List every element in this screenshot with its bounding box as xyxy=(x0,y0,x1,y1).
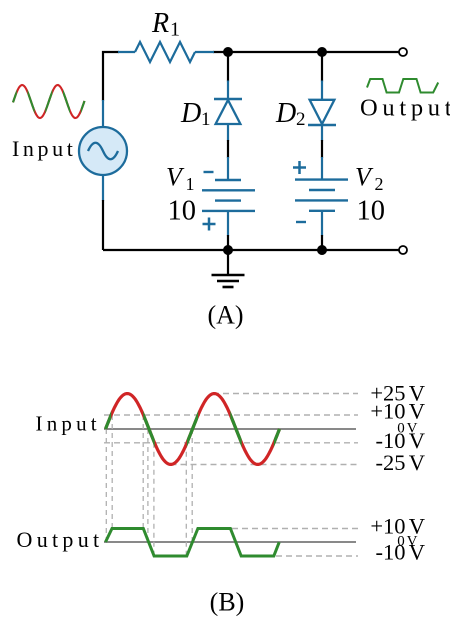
wire V1 to bottom rail xyxy=(227,211,229,236)
svg-text:(B): (B) xyxy=(210,588,245,617)
svg-text:V: V xyxy=(355,163,374,192)
svg-text:Input: Input xyxy=(36,412,101,436)
svg-text:2: 2 xyxy=(296,109,306,130)
wire node1 to D1 xyxy=(227,52,229,82)
diode D2 (cathode down) xyxy=(308,100,336,125)
output waveform (clipped trapezoid) xyxy=(106,529,280,557)
label R1 xyxy=(151,8,180,41)
guide +10V dashed xyxy=(104,414,358,416)
guide +25V dashed xyxy=(213,393,358,395)
svg-text:D: D xyxy=(180,98,201,129)
guide vertical dashed x=106.3 xyxy=(105,429,107,542)
svg-text:10: 10 xyxy=(168,196,197,227)
wire bottom rail xyxy=(103,249,399,251)
node junction top D1 xyxy=(223,47,233,57)
battery V1 xyxy=(202,180,255,211)
guide -10V dashed xyxy=(104,442,358,444)
guide vertical dashed x=186.3 xyxy=(185,443,187,556)
node junction top D2 xyxy=(317,47,327,57)
battery V2 xyxy=(295,180,348,211)
guide vertical dashed x=147.9 xyxy=(147,429,149,542)
label D2 xyxy=(275,98,306,130)
diode D1 (cathode up) xyxy=(214,99,242,124)
wire source bottom xyxy=(102,175,104,202)
node junction bottom V2 xyxy=(317,245,327,255)
V1 minus sign xyxy=(204,171,214,173)
wire top-left corner xyxy=(103,52,119,101)
label V1 xyxy=(166,163,195,195)
guide vertical dashed x=112.2 xyxy=(111,415,113,529)
wire D2 to V2 xyxy=(321,125,323,141)
svg-text:1: 1 xyxy=(170,19,180,41)
wire node2 to D2 xyxy=(321,52,323,82)
guide -25V dashed xyxy=(171,464,359,466)
svg-text:V: V xyxy=(166,163,185,192)
guide vertical dashed x=192.2 xyxy=(191,429,193,542)
svg-text:Output: Output xyxy=(360,95,450,122)
V2 minus sign xyxy=(296,221,306,223)
label V2 xyxy=(355,163,384,195)
svg-text:D: D xyxy=(275,98,296,129)
wire D1 to V1 xyxy=(227,124,229,141)
wire source top xyxy=(102,100,104,128)
guide output -10V dashed xyxy=(276,555,358,557)
svg-text:(A): (A) xyxy=(207,301,243,330)
svg-text:1: 1 xyxy=(186,174,195,194)
ground xyxy=(212,250,245,287)
axis 0V line (input graph) xyxy=(104,428,356,430)
wire resistor right lead xyxy=(195,51,214,53)
svg-text:-25 V: -25 V xyxy=(376,450,425,475)
guide output +10V dashed xyxy=(232,528,358,530)
source V input (sine source) xyxy=(79,127,127,175)
svg-text:R: R xyxy=(151,8,169,39)
output waveform icon xyxy=(367,79,438,93)
terminal top output xyxy=(399,48,407,56)
svg-text:Output: Output xyxy=(17,527,104,552)
V2 plus sign xyxy=(293,161,306,174)
guide vertical dashed x=153.9 xyxy=(153,443,155,556)
svg-text:-10 V: -10 V xyxy=(376,540,425,565)
svg-text:1: 1 xyxy=(201,109,211,130)
svg-text:10: 10 xyxy=(357,196,386,227)
label D1 xyxy=(180,98,211,130)
wire bottom-left xyxy=(102,200,104,250)
wire V2 to bottom rail xyxy=(321,211,323,236)
wire resistor left lead xyxy=(118,51,135,53)
terminal bottom output xyxy=(399,246,407,254)
V1 plus sign xyxy=(203,218,216,231)
resistor R1 xyxy=(135,42,195,62)
guide vertical dashed x=143.2 xyxy=(142,415,144,529)
svg-text:2: 2 xyxy=(375,174,384,194)
node junction bottom V1 xyxy=(223,245,233,255)
svg-text:Input: Input xyxy=(12,136,76,161)
axis 0V line (output graph) xyxy=(104,541,356,543)
wire top rail xyxy=(213,51,399,53)
